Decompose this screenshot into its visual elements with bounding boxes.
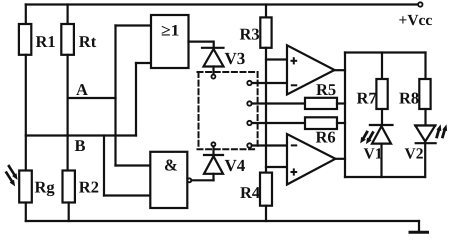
wire R5 left [252,102,305,104]
svg-text:R6: R6 [316,128,336,147]
photo arrows Rg [6,166,13,180]
svg-text:V1: V1 [364,146,383,163]
resistor R1 [19,24,31,55]
connector terminal 1 [247,81,251,85]
connector terminal 3 [247,121,251,125]
svg-text:R7: R7 [357,89,377,108]
op-amp U3 comparator 1 [287,45,335,94]
comp2 plus [291,171,298,173]
wire R5 right [337,102,345,104]
wire R6 right [337,122,345,124]
top +Vcc rail [26,3,419,5]
LED arrows V2 [437,131,445,137]
svg-text:R3: R3 [240,25,260,44]
svg-text:Rt: Rt [79,32,97,51]
comp2 output wire [335,158,345,160]
diode V3 [202,48,224,79]
wire comp2 inverting input [252,144,287,146]
node B vertical to AND [103,136,105,196]
svg-text:R5: R5 [316,80,336,99]
wire comp2 noninverting input [266,166,287,168]
op-amp U4 comparator 2 [287,134,335,185]
bottom ground rail [26,220,419,222]
connector terminal 2 [247,101,251,105]
photo arrows V1 [364,132,373,139]
wire comp1 inverting input [252,82,287,84]
svg-text:V3: V3 [225,49,246,68]
wire OR top input [116,24,152,26]
resistor R5 [305,98,337,109]
svg-text:R8: R8 [399,89,419,108]
svg-text:R4: R4 [240,183,260,202]
wire column1 bottom [25,203,27,222]
wire R4 bottom [265,206,267,221]
AND gate U2 box [150,152,187,208]
wire R8 column [424,53,426,80]
svg-text:Rg: Rg [35,178,56,197]
AND gate output wire [191,179,213,181]
node A wire [68,97,116,99]
wire OR bottom input [136,62,151,64]
connector dashed box [198,72,258,149]
resistor Rg [19,171,32,203]
wire column2 mid [66,55,68,171]
wire AND bottom input [104,194,149,196]
svg-text:+Vcc: +Vcc [399,12,433,29]
wire column2 bottom [68,203,70,222]
wire R3 column [265,5,267,18]
comp1 plus [291,60,298,62]
svg-text:&: & [164,156,178,175]
resistor R4 [260,173,272,206]
right block top wire [345,51,426,53]
connector terminal 4 [247,143,251,147]
svg-text:V4: V4 [225,156,246,175]
resistor R8 [419,79,430,109]
comp2 minus [291,144,297,146]
wire R7 column [381,53,383,80]
wire column1 top [25,5,27,25]
right block bottom wire [345,176,425,178]
svg-text:A: A [76,80,88,99]
resistor R7 [376,79,387,109]
wire R3 to R4 vertical [265,48,267,173]
svg-text:R1: R1 [36,32,56,51]
svg-text:V2: V2 [405,146,424,163]
photodiode V1 [370,125,393,177]
LED V2 [415,126,435,178]
wire R8 to V2 [424,109,426,126]
comp1 output wire [335,69,345,71]
wire column1 mid [25,55,27,171]
node B vertical to OR [135,63,137,136]
wire AND top input [116,164,150,166]
right bus vertical [344,53,346,178]
OR gate output wire [189,42,214,48]
wire column2 top [66,5,68,25]
resistor R6 [305,117,337,129]
+Vcc terminal [418,2,422,6]
svg-text:R2: R2 [79,178,99,197]
svg-text:≥1: ≥1 [161,22,180,39]
resistor R3 [260,17,271,47]
svg-text:B: B [75,136,86,155]
wire R6 left [252,122,305,124]
OR gate U1 box [151,15,189,68]
wire R7 to V1 [381,109,383,125]
comp1 minus [291,84,297,86]
resistor R2 [63,171,75,203]
ground [418,221,420,231]
wire comp1 noninverting input [266,58,287,60]
resistor Rt [61,24,74,55]
AND gate output bubble [187,178,191,182]
node A vertical line [114,26,116,166]
node B wire [26,134,136,136]
diode V4 [204,142,223,180]
